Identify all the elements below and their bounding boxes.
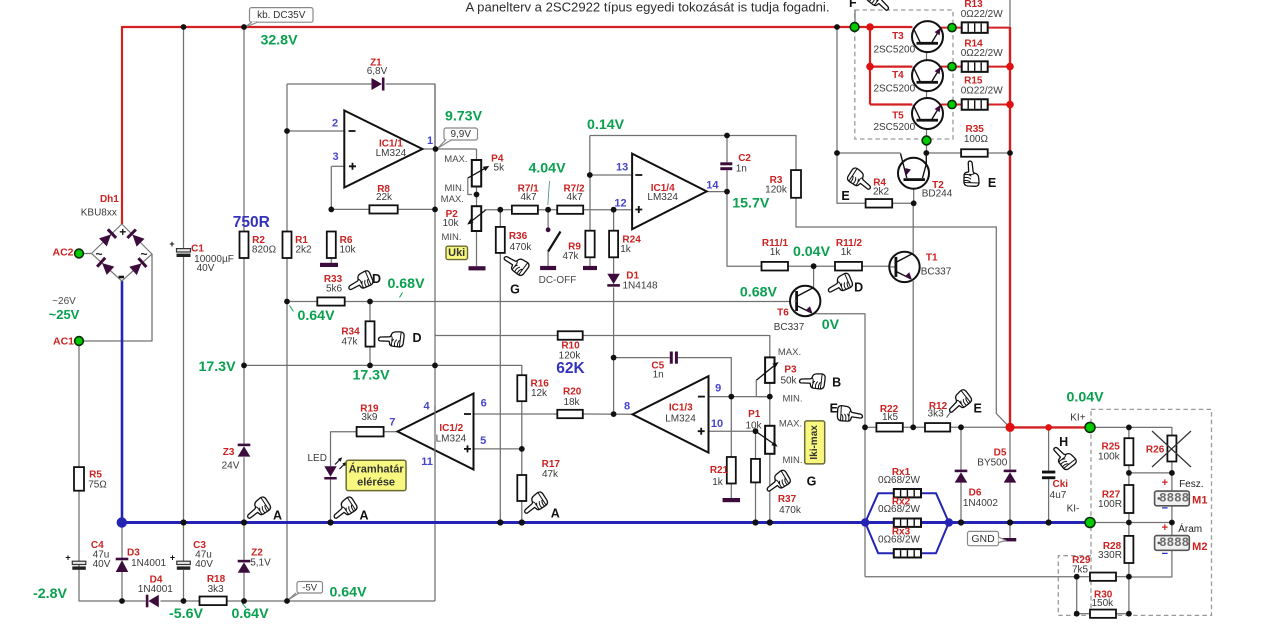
wire R10 row left (435, 335, 558, 337)
pot P4 5k (468, 160, 490, 195)
svg-text:0.68V: 0.68V (740, 284, 778, 300)
resistor R7/2 4k7 (557, 206, 583, 214)
svg-text:5,1V: 5,1V (250, 558, 271, 569)
wire output feedback column x=435 (434, 84, 436, 601)
svg-text:LED: LED (307, 453, 326, 464)
svg-text:750R: 750R (233, 214, 270, 231)
wire red output bus (1009, 27, 1011, 427)
terminal AC2 (75, 249, 84, 258)
junction dots red (866, 23, 1014, 108)
resistor Rx1 0R68 (894, 489, 921, 497)
wire R37 column (755, 431, 757, 459)
svg-text:1N4148: 1N4148 (622, 280, 657, 291)
transistor T2 BD244 (898, 153, 929, 189)
resistor R4 2k2 (866, 199, 893, 208)
bridge rectifier Dh1 KBU8xx (92, 224, 153, 281)
svg-text:3k3: 3k3 (928, 409, 945, 420)
wire T1 collector column (912, 203, 914, 253)
svg-text:P3: P3 (784, 364, 797, 375)
svg-text:12k: 12k (531, 388, 548, 399)
svg-text:+: + (119, 225, 126, 239)
junction dot Rx left (861, 518, 869, 526)
svg-text:~26V: ~26V (52, 296, 76, 307)
hand E at R35 (964, 161, 979, 186)
wire x=837 column (836, 27, 838, 153)
svg-text:47k: 47k (542, 469, 559, 480)
svg-text:1N4001: 1N4001 (138, 584, 173, 595)
hand E at R4 (846, 167, 875, 194)
svg-text:4k7: 4k7 (567, 192, 584, 203)
wire T6 emitter to R22 column (813, 314, 866, 577)
wire R9 column (589, 175, 591, 231)
resistor R18 3k3 (200, 597, 227, 606)
wire R4 link (837, 153, 866, 203)
svg-text:100Ω: 100Ω (964, 134, 989, 145)
svg-text:elérése: elérése (357, 476, 395, 488)
wire T2 emitter row from x=837 (837, 152, 901, 154)
transistor T4 2SC5200 (912, 60, 943, 91)
svg-text:−: − (1162, 503, 1168, 515)
svg-text:T5: T5 (892, 110, 904, 121)
transistor T3 2SC5200 (912, 21, 943, 52)
wire D5 column (1009, 427, 1011, 469)
wire Z1 link (287, 83, 372, 85)
svg-text:0.64V: 0.64V (231, 606, 269, 622)
svg-text:1k: 1k (712, 477, 724, 488)
svg-text:12: 12 (614, 198, 626, 210)
wire C3 column (183, 523, 185, 562)
resistor Rx2 0R68 (894, 519, 921, 527)
zener Z2 5V1 (238, 560, 251, 563)
svg-text:−: − (1162, 548, 1168, 560)
wire AC2 to bridge (79, 253, 92, 255)
svg-text:1k: 1k (620, 244, 632, 255)
wire R16-R17 column (521, 401, 523, 475)
junction dot blue main (117, 517, 127, 527)
svg-text:120k: 120k (765, 184, 788, 195)
wire P2 bottom to ground (476, 231, 478, 266)
svg-text:R26: R26 (1146, 444, 1165, 455)
svg-text:1k: 1k (770, 247, 782, 258)
svg-text:5k6: 5k6 (326, 283, 343, 294)
wire 0.14V node to IC1/4 pin13 (589, 136, 591, 176)
switch DC-OFF lever (548, 232, 560, 252)
tick 4.04V (548, 181, 550, 205)
svg-text:~: ~ (140, 247, 147, 261)
hand A at LED (329, 496, 358, 523)
zener Z3 24V (238, 444, 251, 447)
resistor R36 470k (496, 227, 505, 253)
svg-text:BC337: BC337 (921, 266, 952, 277)
terminal AC1 (75, 337, 84, 346)
wire blue Rx1 branch (865, 493, 894, 522)
svg-text:330R: 330R (1098, 550, 1122, 561)
ground DC-OFF (540, 266, 556, 270)
wire R36 column (499, 210, 501, 227)
junction dot Rx right (945, 518, 953, 526)
ground D5 (1003, 538, 1017, 541)
box Iki-max (805, 421, 825, 464)
capacitor Cki 4u7 (1042, 471, 1055, 480)
wire R29-R30 left column (1076, 577, 1078, 614)
svg-text:R21: R21 (710, 465, 729, 476)
svg-text:LM324: LM324 (376, 148, 407, 159)
wire R34 stubs (369, 302, 371, 322)
svg-text:E: E (974, 402, 982, 416)
wire red T3 emitter to R13 (941, 27, 962, 29)
wire R7/2 to IC1/4 pin12 (583, 209, 632, 211)
hand D at R33 (345, 270, 374, 294)
svg-text:P1: P1 (748, 409, 761, 420)
svg-text:0Ω22/2W: 0Ω22/2W (961, 86, 1004, 97)
wire R27 to KI- row (1128, 513, 1130, 523)
wire Z2 column (243, 523, 245, 560)
wire T3T4T5 base chain (926, 45, 928, 60)
svg-text:D: D (412, 331, 421, 345)
svg-text:32.8V: 32.8V (260, 33, 298, 49)
wire R29 row (865, 576, 1077, 578)
wire red T4/T5 collector riser (869, 27, 871, 105)
svg-text:47k: 47k (562, 251, 579, 262)
svg-text:40V: 40V (195, 559, 213, 570)
svg-text:47k: 47k (341, 337, 358, 348)
svg-text:AC2: AC2 (52, 247, 73, 259)
resistor R9 47k (585, 231, 594, 258)
diode D1 1N4148 (607, 274, 620, 284)
svg-text:Fesz.: Fesz. (1179, 479, 1203, 490)
resistor R10 120k (558, 331, 583, 340)
svg-text:A: A (273, 508, 282, 522)
svg-text:T3: T3 (892, 31, 904, 42)
svg-text:A panelterv a 2SC2922 típus eg: A panelterv a 2SC2922 típus egyedi tokoz… (466, 0, 830, 15)
terminal green T3 emitter (948, 24, 956, 32)
resistor R16 12k (517, 375, 526, 401)
terminal KI+ (1085, 422, 1095, 432)
svg-text:D: D (854, 281, 863, 295)
capacitor C2 1n (720, 162, 732, 170)
op-amp IC1/4 (632, 154, 707, 230)
wire P1 bottom to blue rail (769, 454, 771, 523)
meter M2 Aram (1155, 536, 1190, 551)
svg-text:BY500: BY500 (977, 458, 1007, 469)
svg-text:4u7: 4u7 (1050, 490, 1067, 501)
svg-text:E: E (988, 176, 996, 190)
wire IC1/3 pin9 (709, 396, 732, 398)
svg-text:2: 2 (332, 117, 338, 129)
svg-text:1k5: 1k5 (882, 412, 899, 423)
svg-text:1N4002: 1N4002 (963, 498, 998, 509)
dashed box meter module (1091, 409, 1212, 615)
svg-text:100k: 100k (1098, 452, 1121, 463)
resistor R17 47k (517, 475, 526, 501)
diode D4 1N4001 (146, 595, 149, 608)
resistor R7/1 4k7 (512, 206, 538, 214)
svg-text:E: E (841, 189, 849, 203)
minus sign IC1/4 (635, 174, 642, 176)
svg-text:5: 5 (480, 435, 486, 447)
svg-text:0.04V: 0.04V (793, 244, 831, 260)
svg-text:10k: 10k (442, 218, 459, 229)
svg-text:0Ω68/2W: 0Ω68/2W (878, 475, 921, 486)
svg-text:D6: D6 (969, 487, 982, 498)
svg-text:820Ω: 820Ω (252, 244, 277, 255)
wire AC1 to bridge right vertex (79, 254, 152, 341)
svg-text:7: 7 (389, 417, 395, 429)
svg-text:M2: M2 (1192, 541, 1207, 553)
wire R8 row (331, 208, 369, 210)
box Aramhatar (346, 460, 406, 490)
hand A at rail (243, 496, 272, 523)
wire M1 to KI- row (1171, 506, 1173, 523)
tick 0.64V mid (290, 306, 294, 312)
wire IC1/1 pin3 riser (331, 165, 344, 167)
resistor R27 100R (1124, 485, 1133, 513)
callout kb. DC35V (250, 8, 314, 23)
resistor R26 crossed (1152, 431, 1191, 467)
wire 0.68V rail (287, 301, 317, 303)
resistor R6 10k (327, 232, 336, 259)
svg-text:Uki: Uki (448, 247, 465, 259)
svg-text:IC1/2: IC1/2 (439, 423, 463, 434)
wire IC1/1 output node (422, 148, 476, 150)
hand E at R12 (944, 388, 973, 416)
svg-text:C2: C2 (738, 153, 751, 164)
resistor R11/2 1k (835, 262, 862, 271)
terminal green T4 emitter (948, 63, 956, 71)
svg-text:17.3V: 17.3V (198, 359, 236, 375)
svg-text:0Ω68/2W: 0Ω68/2W (878, 535, 921, 546)
capacitor C4 47u (65, 553, 85, 570)
diode D3 1N4001 (116, 558, 129, 572)
svg-text:3: 3 (332, 151, 338, 163)
callout 9,9V (444, 128, 478, 140)
wire R3 bottom feedback to output KI+ node (796, 198, 1010, 428)
svg-text:0.68V: 0.68V (387, 276, 425, 292)
svg-text:MIN.: MIN. (782, 455, 802, 466)
terminal green base chain (922, 136, 931, 145)
svg-text:E: E (830, 402, 838, 416)
wire red R15 to bus (988, 104, 1010, 106)
terminal green T5 emitter (948, 100, 956, 108)
wire C5 row (614, 357, 670, 359)
svg-text:1n: 1n (653, 369, 664, 380)
callout GND (968, 531, 999, 545)
svg-text:2k2: 2k2 (295, 244, 312, 255)
wire +35V red rail (122, 27, 912, 224)
resistor R12 3k3 (925, 423, 950, 432)
wire T1 emitter column (912, 281, 914, 427)
svg-text:A: A (551, 507, 560, 521)
svg-text:G: G (807, 474, 817, 488)
svg-text:KI-: KI- (1067, 503, 1080, 514)
svg-text:KI+: KI+ (1070, 412, 1085, 423)
wire blue Rx3 branch (865, 523, 894, 554)
svg-text:2SC5200: 2SC5200 (873, 122, 915, 133)
svg-text:+: + (169, 239, 174, 249)
svg-text:2k2: 2k2 (873, 186, 890, 197)
resistor R13 0R22 (962, 22, 988, 32)
ground R21 (723, 498, 741, 502)
resistor R3 120k (791, 170, 801, 198)
svg-text:MAX.: MAX. (778, 347, 801, 358)
resistor R14 0R22 (962, 61, 988, 72)
wire P2 wiper to R7/1 (485, 209, 512, 211)
wire node14 down to R11/1 (727, 192, 762, 267)
wire blue negative rail (121, 521, 1090, 524)
tick 0.64V bottom (242, 603, 246, 608)
box Uki (446, 246, 468, 259)
terminal green rail (850, 23, 859, 32)
wire T2 base-chain to R35 row (926, 152, 961, 154)
zener Z1 6V8 (372, 78, 382, 90)
ground R9 (583, 266, 597, 270)
resistor R21 1k (727, 457, 736, 484)
capacitor C3 47u (170, 553, 190, 570)
wire IC1/1 pin2 (287, 130, 344, 132)
junction dot Cki top red (1045, 424, 1052, 431)
wire P4-P2 junction (476, 187, 478, 207)
wire R28-R30 right column (1128, 577, 1130, 614)
wire -5.6V rail R18 to -5V node (227, 600, 287, 602)
plus sign IC1/2 (464, 445, 471, 452)
transistor T6 BC337 (790, 286, 820, 316)
svg-text:2SC5200: 2SC5200 (873, 45, 915, 56)
ground under R6 (320, 263, 338, 267)
svg-text:-2.8V: -2.8V (33, 586, 67, 602)
svg-text:22k: 22k (376, 192, 393, 203)
svg-text:9,9V: 9,9V (450, 129, 471, 140)
op-amp IC1/2 (398, 394, 474, 470)
svg-text:-5V: -5V (302, 582, 317, 593)
pot P3 50k (756, 357, 778, 396)
svg-text:75Ω: 75Ω (88, 480, 107, 491)
wire IC1/4 output to node 14 (707, 191, 727, 193)
op-amp IC1/3 (633, 376, 709, 453)
svg-text:R36: R36 (509, 231, 528, 242)
LED (324, 457, 347, 479)
wire IC1/3 pin10 (709, 430, 756, 432)
transistor T1 BC337 (889, 252, 919, 282)
wire R26 bottom to M1 (1171, 461, 1173, 491)
svg-text:3k9: 3k9 (361, 412, 378, 423)
capacitor C5 1n (670, 352, 678, 364)
svg-text:B: B (832, 375, 841, 389)
tick 0.68V left (400, 293, 403, 298)
svg-text:100R: 100R (1098, 499, 1122, 510)
minus sign IC1/3 (698, 396, 705, 398)
svg-text:MIN.: MIN. (441, 232, 461, 243)
wire C1 column (183, 27, 185, 249)
wire LED to blue rail (330, 480, 332, 523)
wire R25 stub top (1128, 427, 1130, 438)
hand H at Cki (1050, 442, 1078, 471)
minus sign IC1/1 (349, 130, 356, 132)
svg-text:6,8V: 6,8V (367, 66, 388, 77)
svg-text:24V: 24V (222, 461, 240, 472)
svg-text:MAX.: MAX. (441, 194, 464, 205)
svg-text:Cki: Cki (1053, 479, 1069, 490)
svg-text:-5.6V: -5.6V (169, 606, 203, 622)
svg-text:4.04V: 4.04V (528, 161, 566, 177)
wire R25-R27 column (1128, 465, 1130, 485)
wire stub above red bus top (1009, 0, 1011, 27)
plus sign IC1/4 (635, 206, 642, 213)
dashed box R29 R30 divider (1058, 556, 1091, 616)
junction dots blue rail (180, 519, 1051, 525)
wire R19 to IC1/2 output (384, 431, 398, 433)
hand G at R36 (501, 250, 530, 277)
wire KI+ to meter columns (1090, 427, 1172, 435)
wire C2 column (726, 136, 728, 163)
wire red T5 emitter to R15 (941, 104, 962, 106)
svg-text:0.64V: 0.64V (329, 585, 367, 601)
meter M1 Fesz (1155, 491, 1190, 506)
svg-text:LM324: LM324 (647, 192, 678, 203)
svg-text:T1: T1 (926, 253, 938, 264)
svg-text:1n: 1n (736, 164, 747, 175)
svg-text:+: + (1162, 477, 1168, 489)
resistor R19 3k9 (357, 427, 384, 437)
diode D5 BY500 (1004, 470, 1017, 473)
svg-text:9.73V: 9.73V (445, 109, 483, 125)
svg-text:MIN.: MIN. (444, 183, 464, 194)
svg-text:0Ω22/2W: 0Ω22/2W (961, 9, 1004, 20)
svg-text:Áram: Áram (1178, 522, 1202, 535)
resistor R24 1k (609, 231, 618, 258)
wire R2/Z3 column (243, 27, 245, 232)
svg-text:18k: 18k (563, 397, 580, 408)
svg-text:3k3: 3k3 (208, 584, 225, 595)
svg-text:1k: 1k (841, 247, 853, 258)
wire IC1/2 pin6 row with R20 (474, 413, 558, 415)
wire D1/R24 column (613, 210, 615, 231)
hand G at R37 (763, 469, 792, 496)
resistor R2 820 (240, 232, 249, 259)
resistor R28 330R (1124, 536, 1133, 563)
svg-text:R20: R20 (563, 387, 582, 398)
wire R30 row (1077, 613, 1090, 615)
svg-text:15.7V: 15.7V (732, 195, 770, 211)
wire M2 column (1171, 523, 1173, 536)
wire R12 to KI+ red node (950, 426, 1010, 428)
resistor R30 150k (1090, 610, 1116, 618)
capacitor C1 10000uF (169, 239, 190, 257)
svg-text:+: + (1162, 522, 1168, 534)
svg-text:LM324: LM324 (665, 414, 696, 425)
resistor R8 22k (369, 205, 397, 213)
pot P2 10k (467, 206, 485, 231)
svg-text:50k: 50k (780, 376, 797, 387)
svg-text:0V: 0V (822, 317, 840, 333)
wire meter row 473 (1129, 472, 1172, 474)
op-amp IC1/1 (344, 111, 422, 188)
hand B at P3 (799, 372, 826, 389)
wire R21 column (730, 397, 732, 457)
svg-text:5k: 5k (494, 163, 506, 174)
svg-text:1N4001: 1N4001 (131, 558, 166, 569)
svg-text:R37: R37 (778, 494, 797, 505)
wire R7/1 to R7/2 (538, 209, 557, 211)
svg-text:0Ω22/2W: 0Ω22/2W (961, 48, 1004, 59)
svg-text:+: + (65, 553, 70, 563)
wire R11/2 to T1 base (862, 265, 890, 267)
wire R5 column / left branch (78, 341, 80, 467)
wire 17.3V row (244, 365, 522, 375)
wire 0.14V top link to C2 and R3 (590, 136, 796, 171)
wire T6 collector riser (813, 266, 815, 289)
minus sign IC1/2 (464, 413, 471, 415)
resistor R15 0R22 (962, 99, 988, 110)
